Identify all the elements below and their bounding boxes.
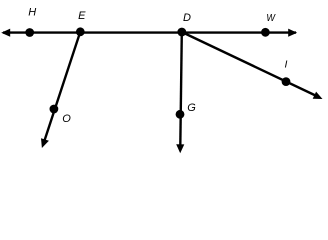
wire: horizontal line HW	[1, 29, 297, 37]
svg-text:H: H	[28, 7, 36, 19]
wire: ray from D through G	[176, 32, 184, 153]
node W	[261, 28, 270, 37]
node G	[176, 110, 185, 119]
node D	[177, 28, 186, 37]
svg-text:I: I	[285, 59, 288, 71]
wire: ray from D through I	[182, 32, 323, 99]
node O	[50, 105, 59, 114]
wire: ray from E through O	[41, 32, 80, 148]
svg-text:E: E	[78, 10, 86, 22]
svg-text:W: W	[266, 12, 276, 24]
node I	[282, 77, 291, 86]
svg-text:D: D	[183, 12, 191, 24]
svg-text:O: O	[62, 113, 71, 125]
node E	[76, 27, 85, 36]
node H	[25, 28, 34, 37]
svg-text:G: G	[187, 102, 196, 114]
